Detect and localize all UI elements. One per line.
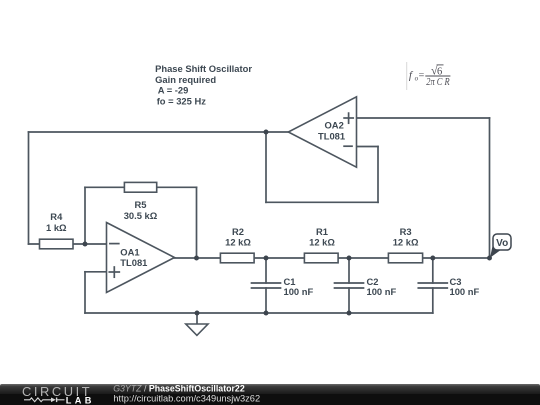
wire: ground stub bbox=[196, 313, 198, 324]
wire: C1 top branch bbox=[265, 258, 267, 283]
wire: OA2 feedback up to output rail bbox=[265, 132, 267, 202]
resistor R5 bbox=[124, 182, 158, 221]
svg-text:100 nF: 100 nF bbox=[284, 286, 314, 297]
node: C2 top bbox=[347, 256, 352, 261]
svg-text:G3YTZ / PhaseShiftOscillator22: G3YTZ / PhaseShiftOscillator22 bbox=[113, 384, 245, 394]
svg-text:Phase Shift Oscillator: Phase Shift Oscillator bbox=[155, 63, 252, 74]
logo: resistor zigzag and diode doodle bbox=[24, 398, 65, 403]
svg-text:R2: R2 bbox=[232, 226, 244, 237]
node: C3 top bbox=[430, 256, 435, 261]
wire: feedback horizontal through R5 bbox=[85, 186, 197, 188]
svg-text:R3: R3 bbox=[400, 226, 412, 237]
svg-text:fo = 325 Hz: fo = 325 Hz bbox=[157, 95, 207, 106]
op-amp OA2 bbox=[288, 97, 356, 167]
svg-text:R1: R1 bbox=[316, 226, 328, 237]
wire: OA1 + down to bottom rail bbox=[84, 272, 86, 313]
svg-text:R5: R5 bbox=[135, 199, 147, 210]
wire: C2 bottom branch bbox=[348, 288, 350, 313]
net flag Vo bbox=[490, 234, 511, 258]
svg-text:2π C R: 2π C R bbox=[426, 77, 450, 88]
node: R4 / R5 junction bbox=[83, 242, 88, 247]
svg-text:30.5 kΩ: 30.5 kΩ bbox=[124, 210, 158, 221]
wire: R4 input wire bbox=[29, 243, 107, 245]
svg-text:http://circuitlab.com/c349unsj: http://circuitlab.com/c349unsjw3z62 bbox=[113, 393, 260, 403]
wire: right vertical rail bbox=[489, 118, 491, 258]
capacitor C2 bbox=[335, 276, 397, 297]
annotation: title text block bbox=[155, 63, 252, 106]
svg-text:Vo: Vo bbox=[496, 238, 508, 249]
resistor R1 bbox=[304, 226, 338, 263]
wire: OA2 - input stub bbox=[357, 146, 379, 148]
op-amp OA1 bbox=[107, 223, 175, 293]
wire: feedback down to OA1 output bbox=[196, 187, 198, 258]
svg-text:12 kΩ: 12 kΩ bbox=[225, 237, 251, 248]
wire: left rail bbox=[28, 132, 30, 244]
node: C2 bottom bbox=[347, 311, 352, 316]
svg-text:A = -29: A = -29 bbox=[158, 85, 189, 96]
node: C1 top bbox=[264, 256, 269, 261]
wire: C1 bottom branch bbox=[265, 288, 267, 313]
wire: C3 bottom branch bbox=[432, 288, 434, 313]
svg-text:100 nF: 100 nF bbox=[367, 286, 397, 297]
wire: OA1 + input stub bbox=[85, 271, 107, 273]
svg-text:f: f bbox=[409, 69, 414, 81]
svg-text:OA2: OA2 bbox=[325, 120, 344, 131]
svg-text:R4: R4 bbox=[50, 211, 63, 222]
wire: OA1 output rail through R2 R1 R3 bbox=[175, 257, 490, 259]
wire: feedback up from R4 node bbox=[84, 187, 86, 244]
node: OA2 feedback tap on top rail bbox=[264, 130, 269, 135]
svg-text:100 nF: 100 nF bbox=[450, 286, 480, 297]
svg-text:12 kΩ: 12 kΩ bbox=[393, 237, 419, 248]
svg-text:Gain required: Gain required bbox=[155, 74, 216, 85]
wire: OA2 feedback down bbox=[377, 147, 379, 203]
ground bbox=[186, 324, 208, 335]
svg-text:TL081: TL081 bbox=[318, 131, 345, 142]
node: R5 / OA1 output junction bbox=[194, 256, 199, 261]
node: Vo output node bbox=[487, 256, 492, 261]
resistor R3 bbox=[388, 226, 422, 263]
wire: bottom rail bbox=[85, 312, 433, 314]
wire: top rail from left rail to OA2 output bbox=[29, 131, 289, 133]
svg-text:TL081: TL081 bbox=[120, 257, 147, 268]
wire: C2 top branch bbox=[348, 258, 350, 283]
svg-text:=: = bbox=[419, 71, 425, 82]
node: C1 bottom bbox=[264, 311, 269, 316]
wire: C3 top branch bbox=[432, 258, 434, 283]
svg-text:12 kΩ: 12 kΩ bbox=[309, 237, 335, 248]
footer bar bbox=[0, 384, 540, 405]
wire: top right horizontal to OA2 + input bbox=[357, 117, 490, 119]
svg-text:1 kΩ: 1 kΩ bbox=[46, 222, 67, 233]
annotation: frequency formula bbox=[407, 62, 451, 90]
resistor R2 bbox=[220, 226, 254, 263]
wire: OA2 feedback bottom bbox=[266, 201, 378, 203]
resistor R4 bbox=[40, 211, 74, 249]
node: ground junction bbox=[195, 311, 200, 316]
svg-text:LAB: LAB bbox=[66, 395, 95, 405]
capacitor C1 bbox=[252, 276, 314, 297]
capacitor C3 bbox=[418, 276, 479, 297]
